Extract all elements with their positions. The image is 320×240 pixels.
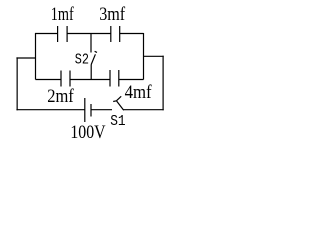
wire switch S2 top lead xyxy=(90,33,92,53)
wire switch S1 to right corner xyxy=(124,109,164,111)
capacitor C3 3mf left plate xyxy=(110,26,112,42)
wire switch S2 bottom lead xyxy=(90,65,92,80)
capacitor C4 4mf left plate xyxy=(109,70,111,87)
svg-text:S2: S2 xyxy=(75,52,89,68)
switch S1 blade xyxy=(116,101,123,110)
wire top rail left segment xyxy=(35,33,58,35)
wire bottom rail middle segment xyxy=(70,79,110,81)
svg-text:100V: 100V xyxy=(70,122,105,141)
switch S1 arrow tick xyxy=(113,100,116,103)
wire outer left vertical xyxy=(16,57,18,110)
wire left stub to outer loop xyxy=(16,57,35,59)
svg-text:S1: S1 xyxy=(110,114,125,130)
wire bottom rail to battery xyxy=(16,109,84,111)
capacitor C1 1mf right plate xyxy=(66,26,68,42)
svg-text:1mf: 1mf xyxy=(51,4,75,25)
battery BT1 short plate xyxy=(90,104,92,117)
wire bottom rail right segment xyxy=(119,79,144,81)
svg-text:3mf: 3mf xyxy=(99,4,126,25)
wire inner right vertical xyxy=(143,33,145,80)
wire top rail right segment xyxy=(120,33,144,35)
svg-text:2mf: 2mf xyxy=(47,86,74,107)
switch S1 arrow arm xyxy=(116,96,121,101)
svg-text:4mf: 4mf xyxy=(125,82,153,103)
capacitor C4 4mf right plate xyxy=(118,70,120,87)
capacitor C2 2mf right plate xyxy=(69,71,71,87)
wire inner left vertical xyxy=(35,33,37,80)
capacitor C1 1mf left plate xyxy=(57,26,59,42)
wire outer right vertical xyxy=(162,56,164,111)
wire top rail middle segment xyxy=(67,33,111,35)
capacitor C2 2mf left plate xyxy=(60,71,62,87)
wire right stub to outer loop xyxy=(144,55,164,57)
wire battery to switch S1 xyxy=(91,109,112,111)
wire bottom rail left segment xyxy=(36,79,62,81)
switch S2 arrow dash xyxy=(95,51,97,52)
capacitor C3 3mf right plate xyxy=(119,26,121,42)
battery BT1 long plate xyxy=(84,98,86,122)
switch S2 blade xyxy=(91,54,95,64)
